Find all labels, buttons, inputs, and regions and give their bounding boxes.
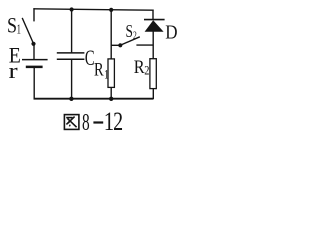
wire S1 pivot to battery (33, 44, 35, 60)
caption dash (93, 121, 103, 123)
wire S2 stub from R1 branch (111, 44, 118, 46)
capacitor C bottom plate (57, 58, 85, 60)
wire right branch top (to diode) (152, 10, 154, 20)
wire diode to R2 (152, 32, 154, 59)
wire top horizontal (33, 9, 153, 10)
node junction top R1 (109, 8, 113, 12)
wire R1 branch lower (110, 87, 112, 98)
svg-text:2: 2 (144, 63, 149, 77)
svg-text:2: 2 (133, 29, 137, 42)
wire battery to bottom wire (33, 67, 35, 99)
svg-text:r: r (9, 59, 19, 83)
battery E long plate (22, 59, 48, 61)
svg-text:S: S (7, 14, 17, 38)
svg-text:2: 2 (113, 107, 123, 136)
svg-text:1: 1 (104, 68, 109, 82)
node junction bottom capacitor (69, 97, 73, 101)
node junction top capacitor (70, 7, 74, 11)
svg-text:1: 1 (17, 22, 21, 38)
wire capacitor branch lower (71, 59, 73, 98)
resistor R2 box (150, 59, 156, 89)
wire left branch upper stub (S1 fixed contact) (33, 8, 35, 21)
switch S2 blade (121, 37, 140, 45)
node S1 pivot (31, 42, 35, 46)
wire R1 branch upper (110, 10, 112, 59)
svg-text:S: S (126, 22, 133, 41)
diode D cathode bar (144, 19, 165, 21)
node junction bottom R1 (109, 97, 113, 101)
wire R2 to bottom wire (152, 89, 154, 99)
svg-text:C: C (85, 46, 95, 71)
node S2 pivot (118, 43, 122, 47)
battery E short thick plate (26, 66, 43, 69)
capacitor C top plate (57, 52, 85, 54)
switch S1 blade (22, 18, 33, 44)
svg-text:8: 8 (82, 110, 90, 136)
svg-text:D: D (165, 21, 177, 44)
caption glyph 图 (64, 115, 79, 130)
wire bottom horizontal (34, 98, 154, 100)
diode D triangle (145, 20, 164, 32)
wire S2 fixed contact to right branch (136, 44, 153, 46)
svg-text:R: R (94, 59, 104, 80)
wire capacitor branch upper (71, 9, 73, 52)
resistor R1 box (108, 59, 114, 88)
svg-text:R: R (134, 56, 145, 77)
